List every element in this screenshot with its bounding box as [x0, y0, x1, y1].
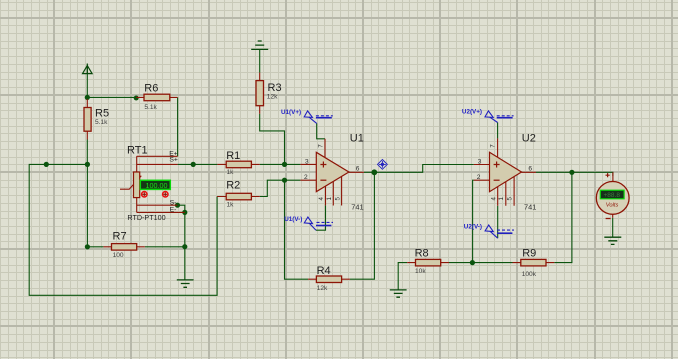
svg-text:100.00: 100.00 — [146, 181, 168, 190]
svg-text:RTD-PT100: RTD-PT100 — [127, 213, 165, 222]
svg-text:R1: R1 — [226, 150, 240, 162]
svg-text:R4: R4 — [317, 265, 331, 277]
svg-text:741: 741 — [524, 202, 536, 211]
svg-text:100: 100 — [113, 252, 124, 259]
svg-text:E-: E- — [170, 207, 177, 214]
svg-text:2: 2 — [304, 174, 308, 181]
svg-text:R8: R8 — [415, 247, 429, 259]
svg-text:U2(V-): U2(V-) — [464, 223, 482, 230]
svg-text:U1(V-): U1(V-) — [284, 216, 302, 223]
svg-text:Volts: Volts — [606, 202, 619, 208]
svg-text:U1(V+): U1(V+) — [281, 109, 301, 116]
svg-text:100k: 100k — [522, 271, 537, 278]
svg-text:4: 4 — [490, 197, 497, 201]
svg-text:5.1k: 5.1k — [95, 119, 108, 126]
svg-text:U2(V+): U2(V+) — [462, 109, 482, 116]
svg-text:R6: R6 — [144, 82, 158, 94]
svg-text:S+: S+ — [169, 157, 178, 164]
svg-text:RT1: RT1 — [127, 145, 148, 157]
svg-text:R5: R5 — [95, 108, 109, 120]
svg-text:741: 741 — [351, 202, 363, 211]
svg-text:12k: 12k — [317, 285, 328, 292]
svg-text:U2: U2 — [522, 132, 536, 144]
svg-text:5: 5 — [507, 197, 514, 201]
svg-text:7: 7 — [490, 144, 497, 148]
svg-text:+88.8: +88.8 — [604, 192, 621, 199]
svg-text:S-: S- — [170, 199, 177, 206]
svg-text:1: 1 — [326, 197, 333, 201]
svg-text:R2: R2 — [226, 180, 240, 192]
svg-text:4: 4 — [318, 197, 325, 201]
svg-text:6: 6 — [528, 165, 532, 172]
svg-text:7: 7 — [318, 144, 325, 148]
svg-text:5: 5 — [334, 197, 341, 201]
svg-text:2: 2 — [477, 174, 481, 181]
svg-text:5.1k: 5.1k — [144, 104, 157, 111]
svg-text:6: 6 — [356, 165, 360, 172]
svg-text:R9: R9 — [522, 247, 536, 259]
svg-text:3: 3 — [478, 159, 482, 166]
svg-text:R7: R7 — [113, 230, 127, 242]
svg-text:1k: 1k — [227, 201, 235, 208]
svg-text:1k: 1k — [227, 169, 235, 176]
svg-text:R3: R3 — [268, 82, 282, 94]
svg-text:3: 3 — [305, 159, 309, 166]
svg-text:1: 1 — [498, 197, 505, 201]
svg-text:12k: 12k — [267, 93, 278, 100]
svg-text:U1: U1 — [350, 132, 364, 144]
svg-text:10k: 10k — [415, 268, 426, 275]
